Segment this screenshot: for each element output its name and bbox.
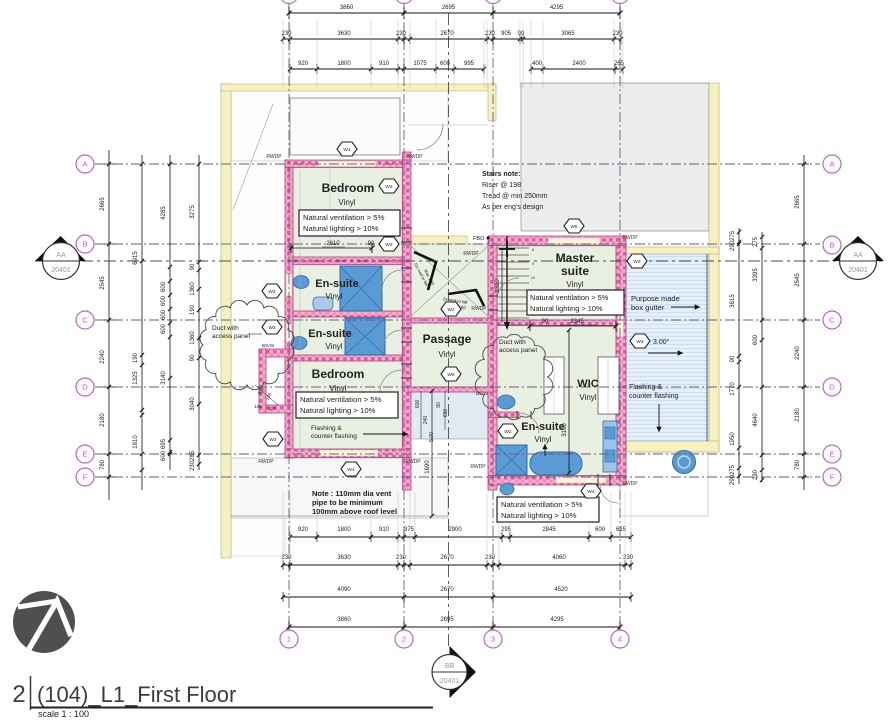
svg-text:RWDP: RWDP [407, 154, 423, 160]
grid bubble 3 bottom [484, 630, 502, 648]
svg-text:290: 290 [753, 469, 759, 480]
window tag W1 at 351,469 [341, 462, 361, 476]
wall duct bay south [259, 405, 293, 413]
svg-text:Flashing &: Flashing & [629, 384, 662, 391]
dimension row 1 top (3860/2695/4295) [289, 12, 620, 14]
grid line 2 vertical [403, 4, 405, 630]
svg-text:3040: 3040 [190, 397, 196, 411]
svg-text:counter flashing: counter flashing [629, 393, 679, 400]
svg-text:Master: Master [556, 251, 595, 265]
svg-text:3140: 3140 [161, 371, 167, 385]
title underline [30, 707, 433, 709]
svg-text:3: 3 [491, 635, 495, 644]
svg-text:2345: 2345 [570, 319, 584, 325]
top extension lines [282, 20, 284, 88]
svg-text:1800: 1800 [337, 61, 351, 67]
grid bubble 3 top [484, 0, 502, 4]
svg-text:275: 275 [730, 230, 736, 241]
grid bubble E left [76, 445, 94, 463]
svg-text:B: B [829, 241, 834, 250]
svg-text:Riser @ 198: Riser @ 198 [482, 182, 521, 189]
svg-text:600: 600 [440, 61, 451, 67]
grid bubble F left [76, 468, 94, 486]
svg-text:W1: W1 [347, 467, 355, 473]
svg-text:AA: AA [853, 252, 863, 259]
door arc entry top [417, 124, 443, 150]
wall passage south [408, 387, 497, 392]
svg-text:190: 190 [133, 352, 139, 363]
wall stair room south [411, 318, 491, 323]
svg-text:RWDP: RWDP [463, 251, 479, 257]
grid bubble 2 top [395, 0, 413, 4]
window tag W5 at 574,226 [564, 219, 584, 233]
title divider [30, 676, 32, 710]
svg-text:En-suite: En-suite [315, 278, 358, 290]
grid line 4 vertical [619, 4, 621, 630]
door arc wic [519, 413, 539, 433]
basin en-suite 1 [293, 276, 309, 289]
svg-text:access panel: access panel [212, 333, 250, 340]
wall duct bay west [259, 349, 266, 413]
svg-text:90: 90 [190, 263, 196, 270]
wc en-suite 3 [500, 483, 514, 495]
grid line F horizontal [95, 476, 820, 478]
svg-text:W3: W3 [385, 242, 393, 248]
passage floor [411, 323, 488, 387]
roof plane left overhang [231, 161, 285, 556]
roof plane top-left (white) [231, 90, 448, 161]
wall master east [616, 246, 626, 486]
svg-text:Natural ventilation > 5%: Natural ventilation > 5% [530, 293, 609, 302]
stair void below passage [408, 391, 488, 439]
note box en-suite 3 [497, 497, 599, 522]
window tag W2 at 508,431 [498, 424, 518, 438]
svg-text:290: 290 [730, 240, 736, 251]
svg-text:2695: 2695 [440, 617, 454, 623]
window W2 west ensuite2 [286, 324, 292, 342]
svg-text:W3: W3 [633, 259, 641, 265]
svg-text:400: 400 [532, 61, 543, 67]
shower en-suite 3 [496, 445, 527, 475]
svg-text:3275: 3275 [190, 205, 196, 219]
svg-text:90: 90 [436, 402, 442, 408]
wall mid east (stair/passage) [488, 236, 497, 490]
svg-text:10: 10 [531, 275, 536, 280]
en-suite 1 floor [293, 264, 402, 311]
svg-text:2670: 2670 [440, 555, 454, 561]
shower en-suite 2 [345, 318, 385, 355]
basin en-suite 2 [291, 337, 307, 350]
wall stair west stub [403, 152, 412, 160]
grid line A horizontal [95, 163, 820, 165]
window tag W2 at 272,327 [262, 320, 282, 334]
dimension row 3 top (920/1800/910/1075/600/995/400/2400/265) [290, 68, 484, 70]
fall arrow chevron 1 [414, 252, 436, 290]
staircase centre line [506, 236, 508, 326]
svg-text:E: E [82, 450, 87, 459]
shower en-suite 1 [340, 266, 382, 311]
svg-text:90: 90 [730, 355, 736, 362]
window tag W1 at 347,149 [337, 142, 357, 156]
svg-text:FBO: FBO [473, 236, 485, 242]
grid bubble D left [76, 378, 94, 396]
roof lower edge line [221, 515, 448, 517]
vanity en-suite 3 [603, 421, 617, 472]
svg-text:C: C [82, 316, 88, 325]
note box bedroom 1 [299, 210, 400, 236]
svg-text:BB: BB [445, 663, 455, 670]
svg-text:2900: 2900 [448, 527, 462, 533]
svg-text:A: A [829, 160, 834, 169]
window tag W3 at 389,244 [379, 237, 399, 251]
svg-text:1: 1 [287, 635, 291, 644]
svg-text:3860: 3860 [337, 617, 351, 623]
grid line B horizontal [95, 243, 820, 245]
svg-text:Vinyl: Vinyl [325, 342, 342, 351]
svg-text:Bedroom: Bedroom [322, 181, 375, 195]
interior dim extension line [299, 170, 301, 449]
window W1 north bedroom1 [318, 161, 376, 167]
fall arrow chevron 2 [448, 290, 484, 306]
note box master [527, 290, 624, 315]
svg-text:W2: W2 [268, 325, 276, 331]
svg-text:600: 600 [595, 527, 606, 533]
door opening marks [401, 227, 412, 229]
svg-text:3395: 3395 [753, 268, 759, 282]
dimension row B bottom (230/3630/230/2670/230/4060/230) [283, 564, 631, 566]
svg-text:Natural lighting > 10%: Natural lighting > 10% [530, 304, 603, 313]
grid line D horizontal [95, 386, 820, 388]
svg-text:En-suite: En-suite [521, 421, 564, 433]
svg-text:910: 910 [379, 527, 390, 533]
door arc ensuite2 [382, 330, 402, 350]
fascia band north [221, 84, 496, 91]
svg-text:1800: 1800 [337, 527, 351, 533]
svg-text:780: 780 [100, 459, 106, 470]
svg-text:As per eng's design: As per eng's design [482, 204, 543, 211]
svg-text:RWDP: RWDP [622, 481, 638, 487]
svg-text:RWDP: RWDP [266, 154, 282, 160]
svg-text:4285: 4285 [161, 206, 167, 220]
left dim chain outer (2665/2545/2240/2180/780) [108, 150, 110, 500]
wc near duct [497, 395, 515, 409]
svg-text:4520: 4520 [554, 587, 568, 593]
en-suite 2 floor [293, 317, 402, 355]
svg-text:(104)_L1_First Floor: (104)_L1_First Floor [37, 682, 236, 707]
wic closet left [544, 357, 564, 414]
svg-text:230: 230 [623, 555, 634, 561]
svg-text:90: 90 [368, 241, 375, 247]
roof opening above bedroom [290, 98, 400, 155]
svg-text:Duct with: Duct with [499, 339, 526, 346]
svg-text:2665: 2665 [795, 195, 801, 209]
svg-text:4640: 4640 [753, 413, 759, 427]
svg-text:600: 600 [161, 281, 167, 292]
svg-text:6915: 6915 [133, 251, 139, 265]
svg-text:190: 190 [190, 304, 196, 315]
svg-text:240: 240 [423, 416, 429, 425]
svg-text:Vinyl: Vinyl [566, 280, 583, 289]
right dim chain 3 (275/290/3615/90/1770/1950/275/290) [738, 228, 740, 484]
svg-text:3615: 3615 [730, 294, 736, 308]
svg-text:100mm above roof level: 100mm above roof level [312, 507, 397, 516]
window W4 master south [556, 477, 606, 483]
grid bubble B right [823, 236, 841, 254]
fascia band stair top [405, 236, 467, 244]
svg-text:3065: 3065 [561, 31, 575, 37]
svg-text:2180: 2180 [795, 408, 801, 422]
svg-text:F: F [830, 473, 835, 482]
window tag W3 at 389,186 [379, 179, 399, 193]
grid line 3 vertical [492, 4, 494, 630]
svg-text:W3: W3 [636, 339, 644, 345]
svg-text:920: 920 [298, 527, 309, 533]
wic closet right [598, 357, 619, 414]
svg-text:Duct with: Duct with [212, 325, 239, 332]
svg-text:1360: 1360 [190, 331, 196, 345]
svg-text:W5: W5 [570, 224, 578, 230]
svg-text:En-suite: En-suite [308, 328, 351, 340]
grid bubble 2 bottom [395, 630, 413, 648]
wall south bedroom2 [285, 449, 411, 458]
svg-text:W6: W6 [447, 372, 455, 378]
bottom extension lines [282, 492, 284, 532]
svg-text:20401: 20401 [848, 267, 868, 274]
left dim chain 3 (4285/600s/3140/695/600) [169, 155, 171, 470]
svg-text:W4: W4 [587, 489, 595, 495]
door arc exterior south [600, 485, 618, 503]
grid bubble B left [76, 235, 94, 253]
wall wic/ensuite divider [489, 412, 519, 418]
svg-text:230: 230 [396, 555, 407, 561]
svg-text:Natural lighting > 10%: Natural lighting > 10% [300, 406, 376, 415]
window W3 west ensuite1 [286, 274, 292, 296]
svg-text:2545: 2545 [795, 273, 801, 287]
svg-text:Vinyl: Vinyl [579, 393, 596, 402]
svg-text:230: 230 [485, 555, 496, 561]
svg-text:BS/W: BS/W [476, 391, 489, 397]
right dim chain 2 (275/3395/600/4640/290) [761, 232, 763, 482]
dimension row A bottom (920/1800/910/375/2900/295/2845/600/615) [290, 536, 631, 538]
fascia band mid vertical [488, 84, 496, 121]
wall divider bed1/ensuite1 [293, 257, 402, 265]
svg-text:Note : 110mm dia vent: Note : 110mm dia vent [312, 489, 392, 498]
grid bubble 1 top [280, 0, 298, 4]
balcony roof hatched [626, 254, 709, 441]
wall divider ensuite2/bed2 [293, 355, 402, 361]
svg-text:Bedroom: Bedroom [312, 367, 365, 381]
svg-text:290: 290 [730, 474, 736, 485]
svg-text:AA: AA [56, 252, 66, 259]
svg-text:2180: 2180 [100, 413, 106, 427]
svg-text:275: 275 [730, 464, 736, 475]
svg-text:2670: 2670 [440, 31, 454, 37]
svg-text:3630: 3630 [337, 31, 351, 37]
en-suite3 arrow [544, 444, 546, 456]
svg-text:375: 375 [404, 527, 415, 533]
svg-text:20401: 20401 [440, 678, 460, 685]
svg-text:W3: W3 [269, 437, 277, 443]
window W1 south bedroom2 [320, 450, 378, 456]
svg-text:620: 620 [268, 406, 276, 411]
dim 90/2345 master [530, 325, 616, 327]
logo circle [13, 591, 75, 653]
svg-text:Flashing &: Flashing & [311, 425, 342, 432]
svg-text:counter flashing: counter flashing [311, 433, 357, 440]
window tag W6 at 451,374 [441, 367, 461, 381]
svg-text:4295: 4295 [550, 5, 564, 11]
svg-text:RWDP: RWDP [622, 235, 638, 241]
svg-text:1075: 1075 [413, 61, 427, 67]
wall west exterior [285, 160, 293, 458]
stair lobby diagonals [411, 246, 488, 316]
window W5 master north [548, 238, 600, 244]
grid bubble 4 top [611, 0, 629, 4]
svg-text:BS/W: BS/W [262, 343, 275, 349]
staircase treads [497, 248, 529, 325]
wall duct bay [259, 349, 293, 357]
left dim chain 4 (3275/90/1360/190/1360/90/3040/285/230) [198, 155, 200, 470]
grid bubble D right [823, 378, 841, 396]
section marker AA right [832, 236, 884, 261]
window tag W2 at 272,291 [262, 284, 282, 298]
section line BB vertical [448, 13, 450, 648]
svg-text:D: D [82, 383, 88, 392]
svg-text:2545: 2545 [100, 276, 106, 290]
svg-text:910: 910 [379, 61, 390, 67]
svg-text:RWDP: RWDP [470, 464, 486, 470]
stair lobby floor [411, 244, 488, 318]
grid bubble E right [823, 445, 841, 463]
svg-text:2: 2 [402, 635, 406, 644]
bath en-suite 3 [530, 452, 582, 475]
svg-text:285: 285 [190, 450, 196, 461]
svg-text:W3: W3 [385, 184, 393, 190]
svg-text:2695: 2695 [442, 5, 456, 11]
svg-text:box gutter: box gutter [631, 303, 665, 312]
window W3 master east [618, 295, 624, 337]
svg-text:W1: W1 [343, 147, 351, 153]
roof valley line left [233, 104, 273, 210]
svg-text:4295: 4295 [550, 617, 564, 623]
svg-text:WIC: WIC [577, 378, 598, 390]
svg-text:90: 90 [542, 319, 549, 325]
fascia band west [221, 84, 231, 558]
wall divider ensuite1/ensuite2 [293, 311, 402, 317]
svg-text:695: 695 [161, 438, 167, 449]
svg-text:Passage: Passage [423, 332, 472, 346]
grid line C horizontal [95, 319, 820, 321]
svg-text:Vinyl: Vinyl [534, 435, 551, 444]
wall master/wic divider [497, 320, 616, 326]
revision cloud west duct [200, 300, 294, 389]
wall east of west rooms [403, 160, 412, 490]
svg-text:Stairs note:: Stairs note: [482, 171, 521, 178]
svg-text:Vinyl: Vinyl [338, 198, 355, 207]
svg-text:600: 600 [161, 450, 167, 461]
dimension row D bottom (3860/2695/4295) [289, 626, 620, 628]
grid line E horizontal [95, 453, 820, 455]
wall master south [489, 476, 626, 486]
door arc ensuite1 [382, 270, 402, 290]
svg-text:1810: 1810 [133, 435, 139, 449]
svg-text:Purpose made: Purpose made [631, 294, 680, 303]
door arc bedroom2 [380, 370, 402, 392]
svg-text:600: 600 [415, 400, 421, 409]
svg-text:105: 105 [254, 404, 262, 409]
svg-text:3860: 3860 [340, 5, 354, 11]
dim 2320 stair [501, 250, 503, 322]
svg-text:2240: 2240 [795, 346, 801, 360]
left dim chain 2 (6915/1325/190/1810) [141, 155, 143, 490]
svg-text:4090: 4090 [337, 587, 351, 593]
svg-text:2670: 2670 [440, 587, 454, 593]
svg-text:20401: 20401 [51, 267, 71, 274]
svg-text:90: 90 [518, 31, 525, 37]
window tag W4 at 591,491 [581, 484, 601, 498]
roof plane top-right (grey) [521, 83, 709, 231]
svg-text:4060: 4060 [552, 555, 566, 561]
svg-text:RWDP: RWDP [258, 459, 274, 465]
svg-text:Vinyl: Vinyl [438, 350, 455, 359]
svg-text:4: 4 [618, 635, 622, 644]
svg-text:suite: suite [561, 264, 589, 278]
svg-text:2610: 2610 [326, 241, 340, 247]
svg-text:RWDP: RWDP [405, 459, 421, 465]
svg-text:W2: W2 [504, 429, 512, 435]
svg-text:90: 90 [190, 354, 196, 361]
svg-text:A: A [82, 160, 87, 169]
svg-text:5.00: 5.00 [429, 432, 435, 442]
svg-text:Natural ventilation > 5%: Natural ventilation > 5% [303, 213, 385, 222]
grid bubble A left [76, 155, 94, 173]
dimension row 2 top (230/3630/230/2670/230/905/90/3065/230) [283, 38, 621, 40]
svg-text:2240: 2240 [100, 350, 106, 364]
grid bubble C left [76, 311, 94, 329]
staircase cross mark [499, 241, 515, 257]
jacuzzi circle [673, 451, 696, 474]
svg-text:230: 230 [485, 31, 496, 37]
svg-text:C: C [829, 316, 835, 325]
svg-text:600: 600 [161, 309, 167, 320]
svg-text:230: 230 [396, 31, 407, 37]
grid bubble C right [823, 311, 841, 329]
fascia band east [709, 83, 719, 452]
master block floor [497, 246, 616, 476]
roof area below master (white) [620, 452, 708, 516]
svg-text:Natural lighting > 10%: Natural lighting > 10% [303, 224, 379, 233]
svg-text:995: 995 [464, 61, 475, 67]
svg-text:Natural ventilation > 5%: Natural ventilation > 5% [300, 395, 382, 404]
svg-text:D: D [829, 383, 835, 392]
svg-text:E: E [829, 450, 834, 459]
window tag W3 at 640,341 [630, 334, 650, 348]
grid bubble 4 bottom [611, 630, 629, 648]
window tag W3 at 637,261 [627, 254, 647, 268]
svg-text:650: 650 [443, 409, 449, 418]
svg-text:600: 600 [753, 334, 759, 345]
svg-text:scale 1 : 100: scale 1 : 100 [38, 709, 89, 719]
svg-text:RWDP: RWDP [471, 306, 487, 312]
svg-text:2845: 2845 [542, 527, 556, 533]
svg-text:920: 920 [298, 61, 309, 67]
wall master north [489, 236, 626, 246]
fascia band balcony bottom [626, 441, 719, 452]
svg-text:600: 600 [161, 323, 167, 334]
svg-text:Tread @ min 250mm: Tread @ min 250mm [482, 193, 548, 200]
stair flight floor [497, 244, 616, 246]
wc en-suite 1 [313, 297, 333, 310]
